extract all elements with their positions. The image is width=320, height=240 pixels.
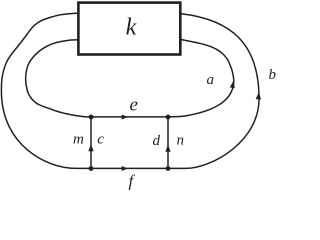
svg-text:m: m xyxy=(73,131,84,147)
svg-text:n: n xyxy=(177,132,185,148)
svg-text:e: e xyxy=(130,95,138,116)
svg-text:f: f xyxy=(129,172,136,191)
svg-text:b: b xyxy=(269,67,277,83)
svg-text:k: k xyxy=(126,15,137,41)
svg-text:d: d xyxy=(153,133,161,149)
svg-text:c: c xyxy=(97,131,104,147)
svg-text:a: a xyxy=(207,72,215,88)
